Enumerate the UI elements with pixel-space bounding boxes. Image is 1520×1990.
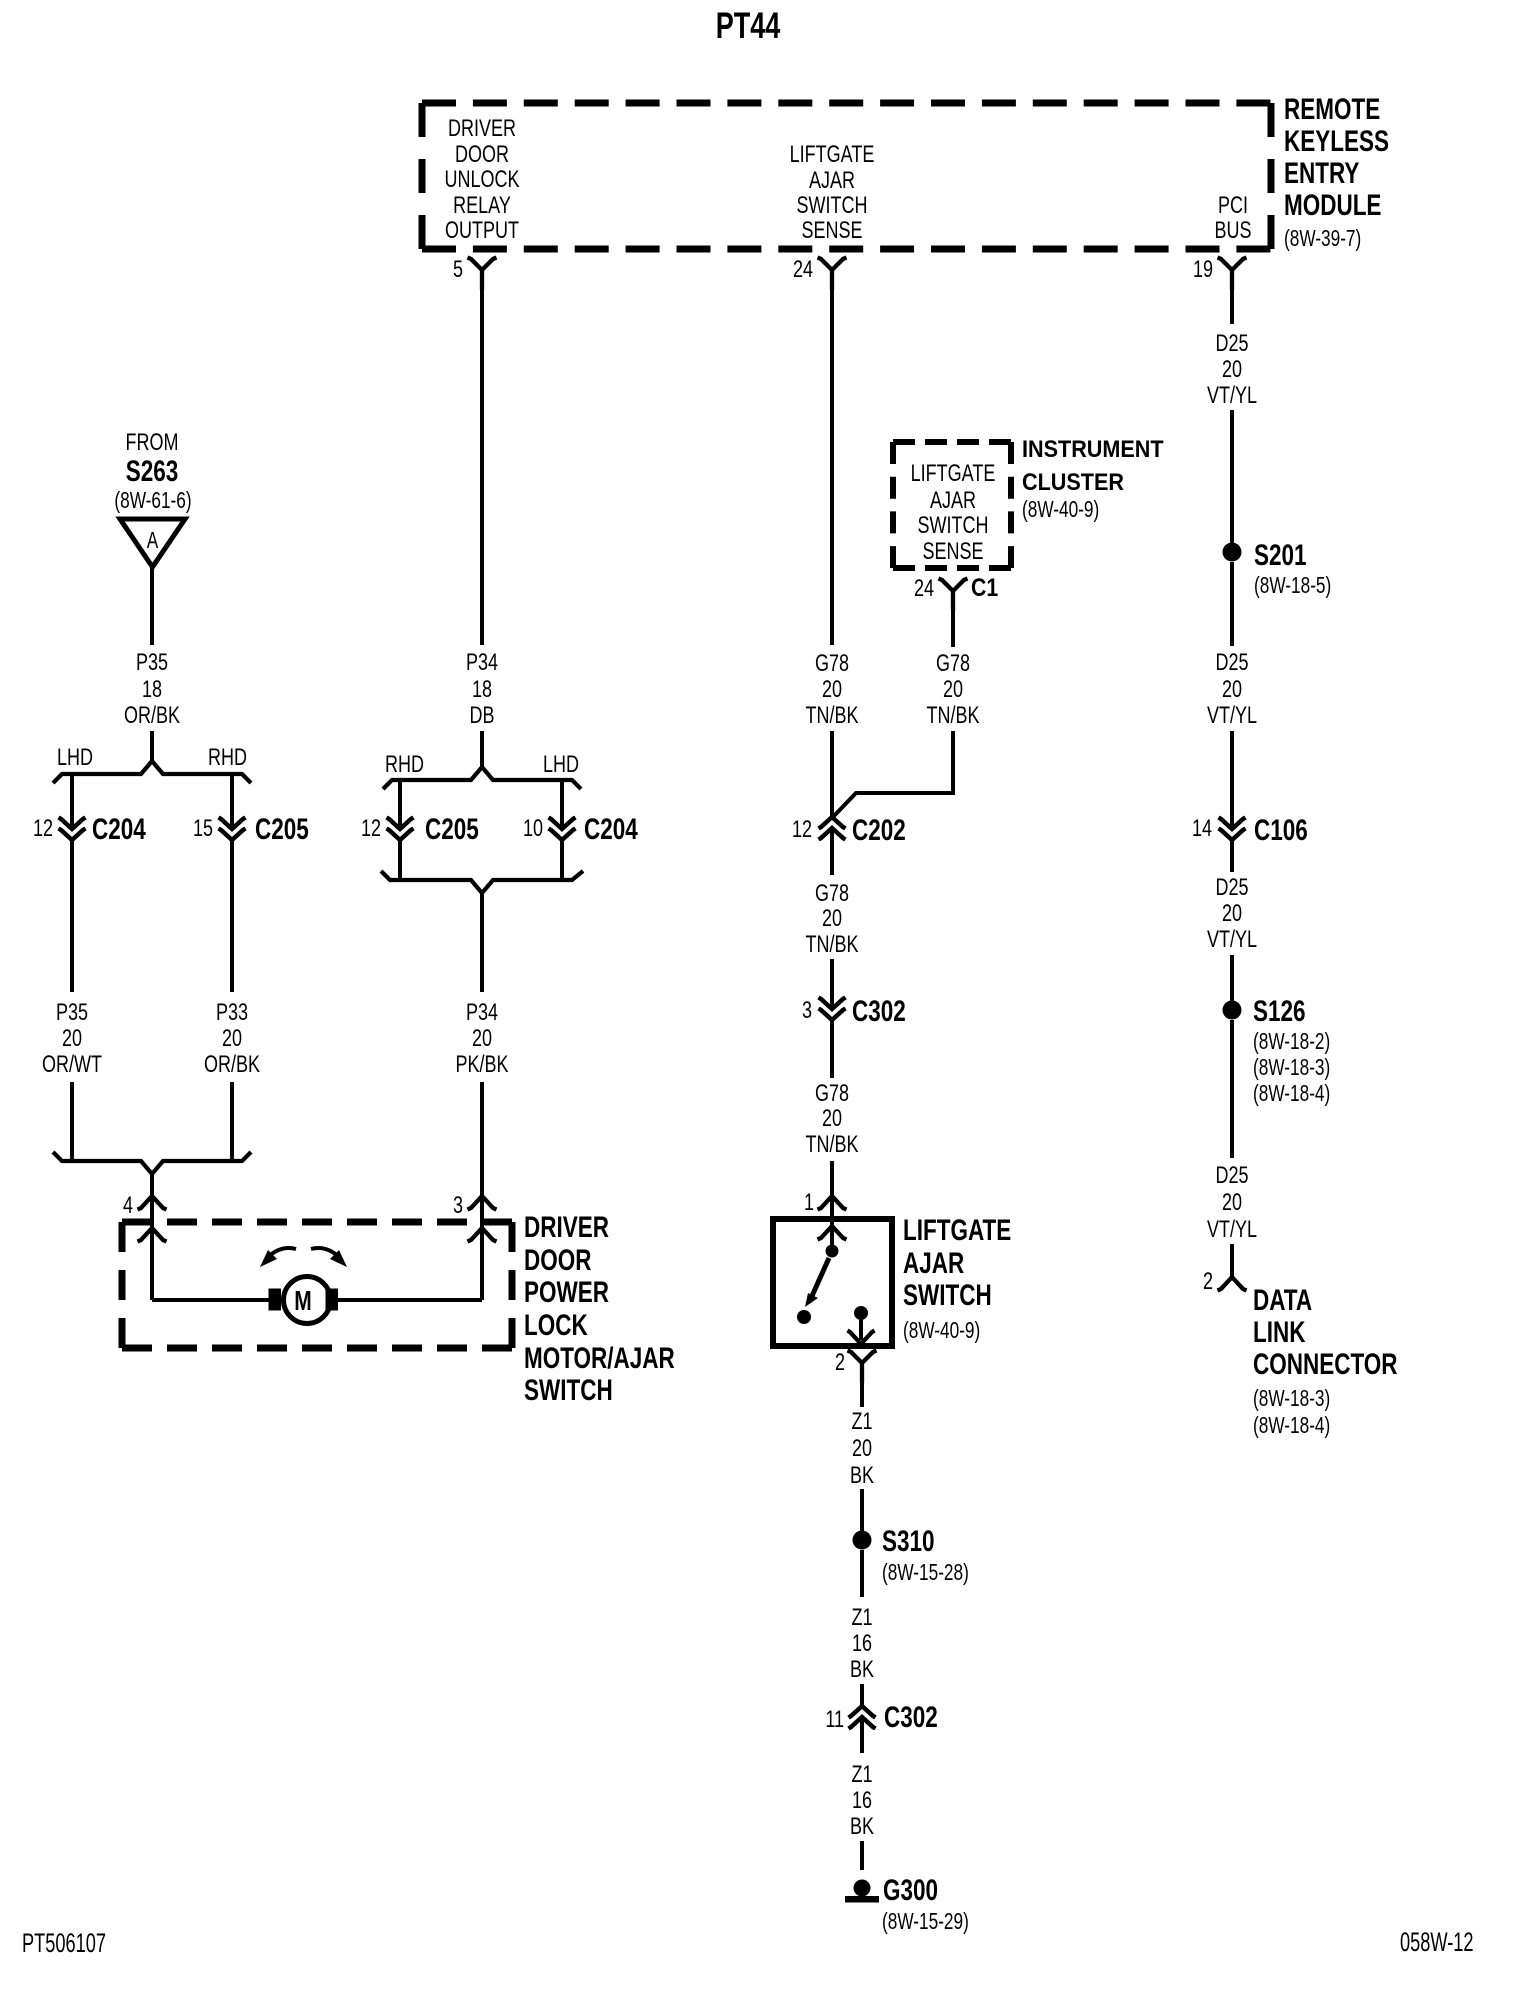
wire P33 lower segment: [230, 1082, 234, 1161]
svg-text:LINK: LINK: [1253, 1315, 1305, 1349]
svg-text:(8W-39-7): (8W-39-7): [1284, 227, 1361, 252]
wire below S126: [1230, 1020, 1234, 1158]
svg-text:OR/BK: OR/BK: [204, 1052, 260, 1078]
svg-text:20: 20: [852, 1436, 872, 1462]
wire down to ground G300: [860, 1841, 864, 1870]
svg-text:PT506107: PT506107: [22, 1927, 106, 1957]
motor M: [269, 1277, 339, 1324]
splice S126 (8W-18-2/3/4): [1223, 994, 1331, 1107]
svg-text:POWER: POWER: [524, 1275, 609, 1309]
svg-text:D25: D25: [1215, 331, 1248, 357]
svg-text:SENSE: SENSE: [922, 539, 983, 565]
driver door power lock motor/ajar switch box: [122, 1222, 512, 1348]
svg-text:C302: C302: [884, 1700, 938, 1734]
switch lower-left contact dot: [797, 1310, 811, 1324]
wire motor left lead: [152, 1298, 269, 1302]
cluster label LIFTGATE AJAR SWITCH SENSE: [911, 461, 996, 565]
chevron inside switch at pin 1: [818, 1226, 847, 1240]
svg-text:20: 20: [62, 1026, 82, 1052]
connector C204 pin 12: [33, 812, 146, 846]
svg-text:PK/BK: PK/BK: [455, 1052, 508, 1078]
svg-text:PT44: PT44: [716, 5, 781, 46]
wire below C204: [560, 840, 564, 880]
svg-text:S263: S263: [126, 454, 179, 488]
label P33 20 OR/BK: [204, 1000, 260, 1078]
wire P33 20 OR/BK upper segment: [230, 840, 234, 992]
off-page connector triangle A from S263: [120, 519, 185, 567]
svg-text:VT/YL: VT/YL: [1207, 1217, 1257, 1243]
svg-text:14: 14: [1192, 816, 1212, 842]
connector C204 pin 10: [523, 812, 638, 846]
svg-text:CONNECTOR: CONNECTOR: [1253, 1347, 1398, 1381]
wire down to splice S310: [860, 1489, 864, 1531]
svg-text:11: 11: [825, 1707, 844, 1733]
rotation arrow right: [311, 1248, 347, 1267]
wire from right contact to pin 2: [859, 1313, 863, 1340]
module label DRIVER DOOR UNLOCK RELAY OUTPUT: [445, 116, 520, 244]
wire below S201: [1230, 562, 1234, 646]
svg-text:INSTRUMENT: INSTRUMENT: [1022, 435, 1164, 462]
module name REMOTE KEYLESS ENTRY MODULE (8W-39-7): [1284, 92, 1389, 252]
svg-text:16: 16: [852, 1631, 872, 1657]
wire RHD branch down to C205: [398, 780, 402, 829]
svg-text:C202: C202: [852, 813, 906, 847]
svg-text:G78: G78: [815, 881, 849, 907]
svg-text:SWITCH: SWITCH: [903, 1278, 992, 1312]
svg-text:DOOR: DOOR: [455, 142, 509, 168]
svg-text:Z1: Z1: [851, 1605, 872, 1631]
module pin 24 connector: [793, 257, 847, 290]
merge brace of RHD/LHD wires: [381, 871, 583, 893]
label G78 20 TN/BK (below C202): [806, 881, 859, 958]
label G78 20 TN/BK (cluster side): [927, 651, 980, 729]
svg-text:LHD: LHD: [543, 752, 579, 778]
svg-text:P33: P33: [216, 1000, 248, 1026]
rotation arrow left: [260, 1248, 296, 1267]
svg-text:TN/BK: TN/BK: [806, 703, 859, 729]
svg-text:RELAY: RELAY: [453, 193, 511, 219]
svg-text:OUTPUT: OUTPUT: [445, 218, 519, 244]
svg-text:(8W-18-3): (8W-18-3): [1253, 1056, 1330, 1081]
box name DRIVER DOOR POWER LOCK MOTOR/AJAR SWITCH: [524, 1210, 675, 1407]
svg-text:P34: P34: [466, 1000, 498, 1026]
svg-text:LIFTGATE: LIFTGATE: [903, 1213, 1011, 1247]
wire P35 20 OR/WT upper segment: [70, 840, 74, 992]
label Z1 16 BK (ground side): [850, 1762, 874, 1840]
wire G78 from cluster: [951, 609, 955, 647]
label P35 18 OR/BK: [124, 650, 180, 729]
svg-text:12: 12: [792, 817, 812, 843]
switch common contact dot: [826, 1245, 839, 1258]
wire pin 1 into switch: [830, 1196, 834, 1246]
svg-text:S201: S201: [1254, 538, 1307, 572]
merge brace into motor pin 4: [53, 1152, 251, 1174]
svg-text:20: 20: [1222, 357, 1242, 383]
svg-text:(8W-61-6): (8W-61-6): [114, 489, 191, 514]
svg-text:G78: G78: [936, 651, 970, 677]
svg-text:BUS: BUS: [1214, 218, 1251, 244]
svg-text:C205: C205: [255, 812, 309, 846]
svg-text:SWITCH: SWITCH: [797, 193, 868, 219]
svg-text:RHD: RHD: [385, 752, 424, 778]
svg-text:1: 1: [804, 1190, 814, 1216]
wire into switch pin 1: [830, 1161, 834, 1196]
svg-text:KEYLESS: KEYLESS: [1284, 124, 1389, 158]
svg-text:2: 2: [835, 1350, 845, 1376]
cluster name INSTRUMENT CLUSTER (8W-40-9): [1022, 435, 1164, 523]
wire G78 from module pin 24: [830, 288, 834, 645]
svg-text:(8W-18-4): (8W-18-4): [1253, 1414, 1330, 1439]
wire LHD branch down to C204: [70, 774, 74, 829]
svg-text:C1: C1: [971, 573, 998, 601]
svg-text:(8W-40-9): (8W-40-9): [903, 1319, 980, 1344]
svg-text:20: 20: [943, 677, 963, 703]
svg-text:20: 20: [1222, 677, 1242, 703]
svg-text:DRIVER: DRIVER: [448, 116, 516, 142]
svg-text:S126: S126: [1253, 994, 1306, 1028]
svg-text:BK: BK: [850, 1814, 874, 1840]
switch pin 1 connector: [804, 1190, 847, 1216]
svg-text:C204: C204: [92, 812, 146, 846]
label D25 20 VT/YL (third): [1207, 875, 1257, 953]
module label PCI BUS: [1214, 193, 1251, 244]
svg-text:FROM: FROM: [126, 430, 179, 456]
wire cluster branch elbow joining C202: [833, 731, 953, 817]
wire G78 below C202: [830, 830, 834, 875]
svg-text:10: 10: [523, 816, 543, 842]
split brace to LHD/RHD wires: [53, 761, 251, 783]
svg-text:(8W-18-3): (8W-18-3): [1253, 1387, 1330, 1412]
svg-text:OR/BK: OR/BK: [124, 703, 180, 729]
svg-text:LOCK: LOCK: [524, 1308, 588, 1342]
wire G78 below C302: [830, 1020, 834, 1078]
svg-text:AJAR: AJAR: [930, 488, 976, 514]
cluster pin 24 connector C1: [914, 573, 998, 611]
svg-text:G300: G300: [883, 1873, 938, 1907]
wire LHD branch down to C204: [560, 780, 564, 829]
wire down to splice S126: [1230, 955, 1234, 1001]
wire P35 lower segment: [70, 1082, 74, 1161]
wire P34 lower segment into pin 3: [480, 1082, 484, 1196]
svg-text:BK: BK: [850, 1463, 874, 1489]
connector C106 pin 14: [1192, 813, 1308, 847]
motor pin 3 connector: [453, 1193, 497, 1219]
svg-text:C106: C106: [1254, 813, 1308, 847]
svg-text:P35: P35: [136, 650, 168, 676]
label G78 20 TN/BK (liftgate side): [806, 1081, 859, 1158]
wire down to C302: [860, 1684, 864, 1706]
svg-text:20: 20: [822, 1106, 842, 1132]
svg-text:LIFTGATE: LIFTGATE: [911, 461, 996, 487]
wire P34 20 PK/BK upper segment: [480, 893, 484, 992]
svg-text:15: 15: [193, 816, 213, 842]
svg-text:19: 19: [1193, 257, 1213, 283]
DLC name DATA LINK CONNECTOR (8W-18-3)(8W-18-4): [1253, 1283, 1398, 1439]
instrument cluster box: [893, 442, 1011, 568]
svg-text:C204: C204: [584, 812, 638, 846]
wire below S310: [860, 1550, 864, 1597]
svg-text:Z1: Z1: [851, 1762, 872, 1788]
switch arm with arrowhead: [805, 1258, 829, 1307]
label D25 20 VT/YL (second): [1207, 650, 1257, 729]
connector C302 pin 11: [825, 1700, 937, 1734]
wire P34 18 DB from module pin 5: [480, 288, 484, 645]
label P35 20 OR/WT: [42, 1000, 102, 1078]
switch pin 2 connector: [835, 1350, 877, 1383]
label Z1 20 BK: [850, 1409, 874, 1489]
splice S201 (8W-18-5): [1223, 538, 1332, 599]
svg-text:LIFTGATE: LIFTGATE: [790, 142, 875, 168]
wire down to splice S201: [1230, 410, 1234, 543]
wire stub above LHD/RHD split: [150, 731, 154, 763]
svg-text:(8W-18-4): (8W-18-4): [1253, 1082, 1330, 1107]
svg-text:5: 5: [453, 257, 463, 283]
svg-text:20: 20: [472, 1026, 492, 1052]
svg-text:16: 16: [852, 1788, 872, 1814]
chevron inside box at pin 4: [138, 1228, 167, 1242]
svg-text:SWITCH: SWITCH: [524, 1373, 613, 1407]
wire down to C106: [1230, 731, 1234, 829]
svg-text:VT/YL: VT/YL: [1207, 927, 1257, 953]
svg-text:AJAR: AJAR: [903, 1246, 964, 1280]
svg-text:OR/WT: OR/WT: [42, 1052, 102, 1078]
svg-text:C302: C302: [852, 994, 906, 1028]
wire D25 below C106: [1230, 841, 1234, 872]
connector C205 pin 12: [361, 812, 479, 846]
svg-text:(8W-40-9): (8W-40-9): [1022, 498, 1099, 523]
svg-text:(8W-15-29): (8W-15-29): [882, 1910, 969, 1935]
svg-text:CLUSTER: CLUSTER: [1022, 468, 1124, 495]
liftgate ajar switch box: [773, 1219, 892, 1346]
label D25 20 VT/YL (fourth): [1207, 1163, 1257, 1243]
svg-text:24: 24: [914, 576, 934, 602]
label G78 20 TN/BK (module side): [806, 651, 859, 729]
svg-text:UNLOCK: UNLOCK: [445, 167, 520, 193]
arrow chevron leaving switch: [848, 1331, 875, 1345]
svg-text:TN/BK: TN/BK: [806, 1132, 859, 1158]
svg-text:SENSE: SENSE: [801, 218, 862, 244]
svg-text:(8W-18-2): (8W-18-2): [1253, 1030, 1330, 1055]
svg-text:C205: C205: [425, 812, 479, 846]
svg-text:MOTOR/AJAR: MOTOR/AJAR: [524, 1341, 675, 1375]
module pin 5 connector: [453, 257, 497, 290]
label Z1 16 BK (above C302): [850, 1605, 874, 1683]
wire from triangle A down: [150, 567, 154, 645]
svg-text:20: 20: [222, 1026, 242, 1052]
svg-text:REMOTE: REMOTE: [1284, 92, 1380, 126]
svg-text:2: 2: [1203, 1269, 1213, 1295]
svg-text:P34: P34: [466, 650, 498, 676]
switch name LIFTGATE AJAR SWITCH (8W-40-9): [903, 1213, 1011, 1344]
DLC pin 2 connector: [1203, 1269, 1247, 1295]
svg-text:BK: BK: [850, 1657, 874, 1683]
splice S310 (8W-15-28): [853, 1524, 969, 1586]
wire Z1 below C302: [860, 1719, 864, 1753]
svg-text:P35: P35: [56, 1000, 88, 1026]
ground G300 (8W-15-29): [845, 1873, 969, 1935]
svg-text:DRIVER: DRIVER: [524, 1210, 609, 1244]
svg-text:20: 20: [822, 906, 842, 932]
svg-text:LHD: LHD: [57, 745, 93, 771]
svg-text:SWITCH: SWITCH: [918, 513, 989, 539]
svg-text:Z1: Z1: [851, 1409, 872, 1435]
svg-text:G78: G78: [815, 1081, 849, 1107]
wire stub down to C202: [830, 731, 834, 817]
svg-text:4: 4: [123, 1193, 133, 1219]
motor pin 4 connector: [123, 1193, 167, 1219]
wire stub above RHD/LHD split: [480, 731, 484, 769]
label D25 20 VT/YL (first): [1207, 331, 1257, 409]
svg-text:20: 20: [1222, 1190, 1242, 1216]
switch right contact dot: [854, 1306, 868, 1320]
svg-text:3: 3: [453, 1193, 463, 1219]
svg-text:M: M: [294, 1286, 311, 1317]
svg-text:DB: DB: [469, 703, 494, 729]
svg-text:(8W-15-28): (8W-15-28): [882, 1561, 969, 1586]
svg-text:S310: S310: [882, 1524, 935, 1558]
wire Z1 20 BK from switch pin 2: [860, 1381, 864, 1407]
label P34 18 DB: [466, 650, 498, 729]
svg-text:PCI: PCI: [1218, 193, 1248, 219]
chevron inside box at pin 3: [468, 1228, 497, 1242]
svg-text:DATA: DATA: [1253, 1283, 1312, 1317]
wire down to C302: [830, 959, 834, 1009]
svg-text:D25: D25: [1215, 1163, 1248, 1189]
svg-text:TN/BK: TN/BK: [927, 703, 980, 729]
svg-text:A: A: [147, 529, 159, 554]
label FROM S263 (8W-61-6): [114, 430, 191, 514]
svg-text:D25: D25: [1215, 650, 1248, 676]
svg-text:12: 12: [361, 816, 381, 842]
label P34 20 PK/BK: [455, 1000, 508, 1078]
svg-text:VT/YL: VT/YL: [1207, 703, 1257, 729]
svg-text:ENTRY: ENTRY: [1284, 156, 1360, 190]
wire pin 4 into motor: [150, 1196, 154, 1300]
wire pin 3 into motor: [480, 1196, 484, 1300]
module pin 19 connector: [1193, 257, 1247, 290]
svg-text:AJAR: AJAR: [809, 168, 855, 194]
svg-text:18: 18: [142, 677, 162, 703]
svg-text:G78: G78: [815, 651, 849, 677]
wire D25 from module pin 19: [1230, 288, 1234, 324]
svg-text:MODULE: MODULE: [1284, 188, 1381, 222]
svg-text:18: 18: [472, 677, 492, 703]
svg-text:24: 24: [793, 257, 813, 283]
svg-text:20: 20: [1222, 901, 1242, 927]
svg-text:(8W-18-5): (8W-18-5): [1254, 574, 1331, 599]
wire into DLC pin 2: [1230, 1244, 1234, 1277]
svg-text:RHD: RHD: [208, 745, 247, 771]
wire RHD branch down to C205: [230, 774, 234, 829]
wire below C205: [398, 840, 402, 880]
wire motor right lead: [338, 1298, 482, 1302]
split brace to RHD/LHD wires: [383, 767, 581, 789]
svg-text:058W-12: 058W-12: [1400, 1926, 1474, 1956]
svg-text:D25: D25: [1215, 875, 1248, 901]
svg-text:12: 12: [33, 816, 53, 842]
svg-text:3: 3: [802, 998, 812, 1024]
svg-text:VT/YL: VT/YL: [1207, 383, 1257, 409]
module label LIFTGATE AJAR SWITCH SENSE: [790, 142, 875, 244]
connector C205 pin 15: [193, 812, 309, 846]
svg-text:20: 20: [822, 677, 842, 703]
remote keyless entry module box: [422, 103, 1271, 249]
connector C202 pin 12: [792, 813, 906, 847]
wire stub into pin 4: [150, 1174, 154, 1196]
svg-text:TN/BK: TN/BK: [806, 932, 859, 958]
connector C302 pin 3: [802, 994, 906, 1028]
svg-text:DOOR: DOOR: [524, 1243, 591, 1277]
